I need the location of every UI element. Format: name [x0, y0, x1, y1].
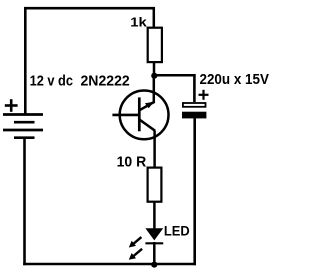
- resistor R1 1k box: [148, 28, 162, 62]
- capacitor C1 plus sign: [199, 90, 209, 100]
- LED D1 triangle: [145, 228, 163, 240]
- svg-text:2N2222: 2N2222: [81, 73, 130, 90]
- battery B1 plus sign: [5, 99, 18, 112]
- wire 1k to junction: [153, 63, 156, 77]
- wire left side (top): [24, 7, 27, 115]
- wire left side (bottom): [23, 138, 26, 266]
- resistor R2 10R box: [148, 168, 162, 202]
- LED D1 cathode bar: [145, 242, 163, 244]
- svg-text:10 R: 10 R: [117, 153, 147, 170]
- transistor Q1 base bar: [138, 97, 141, 131]
- capacitor C1 top plate: [183, 103, 206, 107]
- svg-text:12 v dc: 12 v dc: [30, 73, 73, 90]
- wire base stub: [112, 114, 140, 117]
- battery B1 plate long 2: [3, 129, 43, 132]
- capacitor C1 bottom plate: [182, 112, 206, 119]
- transistor Q1 arrow: [145, 102, 154, 109]
- node junction top dot: [151, 73, 157, 79]
- transistor Q1 circle: [120, 91, 169, 140]
- battery B1 plate short 2: [14, 136, 35, 139]
- transistor Q1 emitter diagonal: [139, 119, 155, 131]
- LED D1 light arrow 1: [129, 237, 142, 247]
- transistor Q1 collector diagonal: [139, 102, 154, 110]
- wire 1k feed from rail: [153, 7, 156, 28]
- svg-text:220u x 15V: 220u x 15V: [200, 71, 269, 88]
- wire 10R to LED: [153, 202, 156, 230]
- wire collector vertical: [153, 76, 156, 104]
- wire emitter vertical: [153, 131, 156, 168]
- svg-text:LED: LED: [164, 222, 190, 238]
- battery B1 plate long 1: [3, 113, 43, 116]
- LED D1 light arrow 2: [129, 249, 142, 260]
- battery B1 plate short 1: [14, 121, 35, 124]
- wire right side: [193, 117, 196, 265]
- wire bottom rail: [23, 263, 196, 266]
- node bottom junction dot: [151, 262, 157, 268]
- wire junction horizontal: [154, 74, 195, 77]
- wire LED to rail: [153, 242, 156, 265]
- wire capacitor top lead: [193, 74, 196, 102]
- svg-text:1k: 1k: [130, 14, 147, 29]
- wire top rail: [24, 7, 155, 10]
